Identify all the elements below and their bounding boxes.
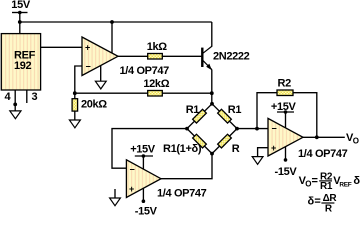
wire bridge arm top-left: [187, 104, 212, 129]
node U3 V- dot: [284, 158, 288, 162]
wire U3 output: [303, 136, 345, 138]
node bridge bottom: [210, 152, 214, 156]
node pin4 junction: [13, 103, 17, 107]
wire U3 + input to ground: [258, 148, 268, 157]
wire emitter down to bridge top: [211, 70, 213, 104]
wire collector drop: [211, 22, 213, 46]
svg-text:R1: R1: [228, 104, 242, 116]
wire REF192 pin 3 stub: [26, 90, 28, 103]
resistor 20k: [72, 99, 78, 111]
wire U1 V+ supply: [111, 22, 113, 54]
svg-text:15V: 15V: [11, 0, 31, 11]
svg-text:1kΩ: 1kΩ: [147, 41, 168, 53]
svg-text:2N2222: 2N2222: [213, 51, 250, 63]
IC REF192: [1, 34, 40, 90]
wire bridge right node to U3 - input: [237, 128, 268, 130]
wire U1 V- to ground: [100, 64, 102, 81]
svg-text:R1(1+δ): R1(1+δ): [163, 143, 202, 155]
bridge resistor R1 top-left: [193, 109, 207, 123]
ground (U1 V-): [95, 81, 106, 89]
svg-text:R1: R1: [320, 181, 333, 192]
svg-text:=: =: [314, 196, 320, 208]
resistor 12k: [148, 91, 163, 97]
svg-text:−: −: [86, 62, 91, 72]
wire 20k top: [74, 93, 76, 99]
wire bridge bottom node to U2 output: [160, 154, 212, 179]
svg-text:=: =: [312, 175, 318, 187]
node U2 V- dot: [142, 199, 146, 203]
transistor Q1 2N2222: [201, 46, 212, 70]
resistor 1k: [148, 54, 163, 60]
wire U3 V- supply: [285, 146, 287, 160]
svg-text:-15V: -15V: [135, 205, 158, 215]
wire 15V terminal to REF192 top: [19, 13, 21, 35]
wire U3 V+ supply: [285, 112, 287, 128]
power +15V bar U3: [277, 111, 294, 113]
wire U1 output to base: [118, 55, 202, 57]
bridge resistor R1(1+d) bottom-left: [193, 134, 207, 148]
wire 20k bottom to ground: [74, 111, 76, 120]
svg-text:+: +: [271, 143, 276, 153]
svg-text:O: O: [353, 137, 359, 146]
wire divider node to transistor emitter: [75, 92, 212, 94]
node emitter junction: [210, 91, 214, 95]
ground (REF192 pin 4): [10, 111, 21, 119]
svg-text:1/4 OP747: 1/4 OP747: [120, 65, 170, 77]
svg-text:+: +: [85, 43, 90, 53]
op-amp U2 1/4 OP747: [126, 160, 161, 198]
op-amp U3 1/4 OP747: [268, 118, 303, 156]
svg-text:−: −: [130, 165, 135, 175]
svg-text:R2: R2: [278, 77, 292, 89]
wire REF192 pin 4: [14, 90, 16, 111]
power +15V bar U2: [135, 155, 153, 157]
node 15V terminal dot: [18, 11, 22, 15]
svg-text:R: R: [232, 143, 240, 155]
svg-text:3: 3: [32, 91, 38, 103]
svg-text:−: −: [272, 124, 277, 134]
bridge resistor R bottom-right: [218, 134, 232, 148]
svg-text:+15V: +15V: [130, 144, 156, 156]
wire U2 V+ supply: [142, 156, 144, 170]
ground (U3 + input): [252, 157, 263, 165]
node bridge right: [235, 127, 239, 131]
node output junction: [315, 135, 319, 139]
svg-text:20kΩ: 20kΩ: [81, 99, 107, 111]
svg-text:192: 192: [14, 60, 32, 72]
node rail junction at U1 V+: [110, 20, 114, 24]
wire bridge arm bottom-right: [212, 129, 237, 154]
node U2 V+ dot: [142, 154, 146, 158]
wire 15V rail: [20, 21, 212, 23]
bridge resistor R1 top-right: [218, 109, 232, 123]
wire REF192 output to U1 + input: [41, 46, 82, 48]
svg-text:1/4 OP747: 1/4 OP747: [298, 148, 348, 160]
formula VO = R2/R1 VREF delta: [299, 171, 361, 192]
power 15V terminal bar: [12, 12, 28, 14]
node bridge top: [210, 102, 214, 106]
svg-text:12kΩ: 12kΩ: [143, 78, 169, 90]
wire U2 V- supply: [142, 188, 144, 201]
node rail junction at REF: [18, 20, 22, 24]
svg-text:R1: R1: [186, 104, 200, 116]
svg-text:+: +: [129, 184, 134, 194]
wire bridge arm bottom-left: [187, 129, 212, 154]
wire bridge left node to U2 - input: [112, 129, 187, 169]
svg-text:O: O: [305, 180, 311, 189]
op-amp U1 1/4 OP747: [82, 37, 118, 76]
svg-text:REF: REF: [339, 181, 351, 188]
resistor R2: [277, 90, 293, 96]
node U3 inverting junction: [255, 127, 259, 131]
wire R2 feedback loop: [257, 93, 317, 138]
svg-text:+15V: +15V: [271, 101, 297, 113]
ground (below 20k): [69, 120, 80, 128]
wire bridge arm top-right: [212, 104, 237, 129]
svg-text:1/4 OP747: 1/4 OP747: [157, 188, 207, 200]
svg-text:δ: δ: [353, 175, 360, 187]
node divider junction: [73, 91, 77, 95]
svg-text:R: R: [325, 204, 333, 215]
ground (near U2 + input): [110, 198, 121, 206]
svg-text:-15V: -15V: [275, 166, 298, 178]
wire ground stub near U2 + input: [114, 189, 116, 198]
wire U1 inverting input feedback: [75, 66, 82, 93]
node U3 V+ dot: [284, 110, 288, 114]
formula delta = dR/R: [308, 193, 338, 215]
node bridge left: [185, 127, 189, 131]
